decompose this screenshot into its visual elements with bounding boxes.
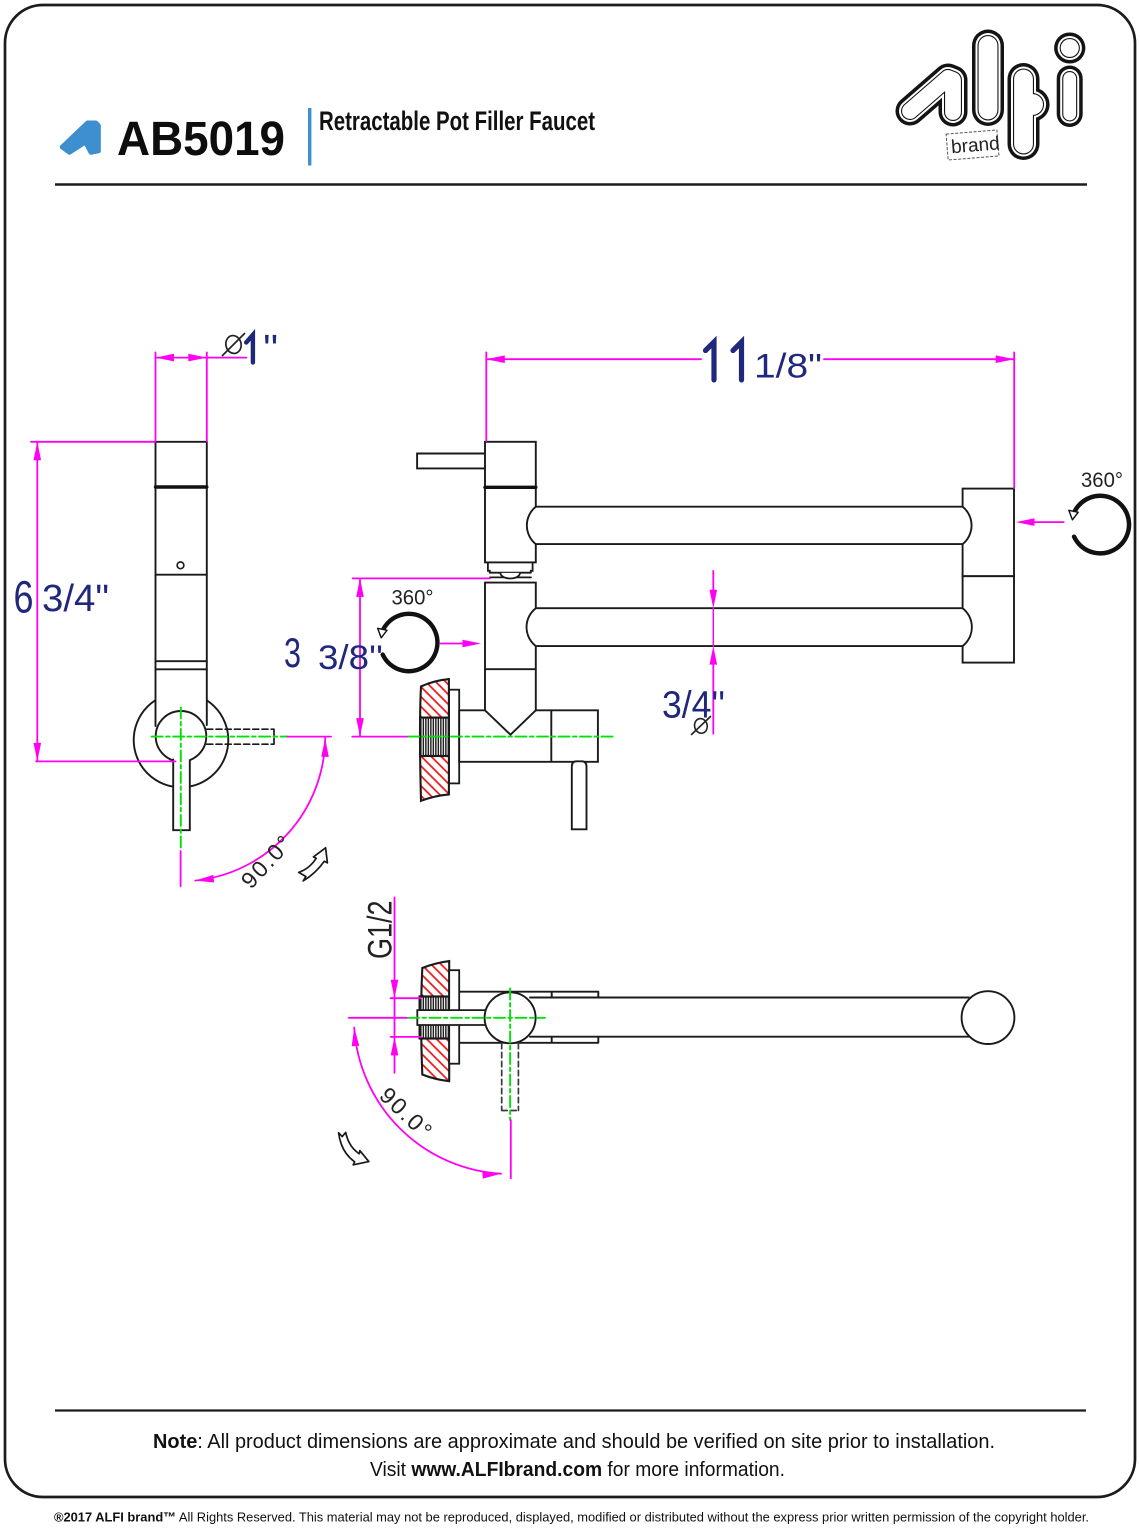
svg-text:6: 6 (14, 571, 34, 622)
escutcheon top view (449, 970, 459, 1063)
svg-text:brand: brand (950, 133, 1000, 158)
right swivel block upper (963, 489, 1014, 577)
svg-text:Retractable Pot Filler Faucet: Retractable Pot Filler Faucet (319, 106, 595, 136)
joint housing bar (459, 992, 598, 1043)
svg-text:3: 3 (284, 629, 301, 676)
set screw hole (177, 562, 184, 569)
lever handle (side) (173, 760, 190, 831)
arc extension tick (180, 851, 182, 886)
nozzle V (485, 710, 536, 734)
centerline horizontal (152, 736, 288, 738)
dim 3 3/8 extension (353, 577, 490, 579)
faucet body (side) (156, 442, 207, 732)
body seam thick (156, 485, 207, 488)
dim 11 1/8 extensions (485, 352, 487, 441)
dim 1 inch text (246, 335, 253, 363)
svg-text:360°: 360° (1081, 469, 1123, 492)
arm top view (530, 998, 970, 1037)
360 right arrow (1031, 521, 1064, 523)
body double seam (156, 660, 207, 662)
dim 11 1/8 text (706, 342, 742, 380)
upper arm capsule (527, 507, 972, 544)
brand mark blue icon (62, 123, 99, 153)
360 left arrow (441, 643, 467, 645)
rotation curl arrow (299, 848, 328, 881)
svg-text:G1/2: G1/2 (360, 900, 399, 959)
handle lever (front) (417, 454, 488, 469)
valve body (459, 710, 598, 762)
svg-text:1/8": 1/8" (754, 348, 822, 386)
mounting nipple threads (420, 718, 449, 756)
360 rotation left: circle (381, 614, 437, 671)
header rule (55, 183, 1087, 185)
lower faucet body (485, 583, 536, 711)
dim 6 3/4 extension bottom (36, 760, 176, 762)
centerline magenta extension left (349, 1017, 407, 1019)
spout stub (hidden) (207, 729, 274, 744)
dim 6 3/4 extension top (31, 441, 155, 443)
dim 3/4 line upper (712, 571, 714, 596)
alfi logo letters: silhouettes (910, 46, 1070, 145)
supply shank (417, 1010, 485, 1025)
right swivel block lower (963, 576, 1014, 662)
dim dia1 line (156, 357, 207, 359)
rotation curl arrow top view (339, 1132, 369, 1164)
dim dia1 extension lines (155, 352, 157, 441)
centerline horizontal top view (408, 1017, 545, 1019)
ALFI logo (910, 46, 1070, 145)
upper faucet body (485, 442, 536, 563)
wall section top view (hatched) (421, 961, 449, 1081)
arc extension below (510, 1120, 512, 1178)
dim 3 3/8 connector (352, 736, 407, 738)
svg-text:®2017 ALFI brand™ All Rights R: ®2017 ALFI brand™ All Rights Reserved. T… (54, 1510, 1089, 1525)
nipple threads top view (420, 997, 450, 1039)
joint inner circle (156, 711, 207, 762)
aerator collar (488, 562, 533, 572)
blue divider bar (308, 108, 311, 166)
lower body seam (485, 668, 536, 670)
svg-text:3/8'': 3/8'' (318, 639, 383, 677)
360 rotation right: circle (1073, 496, 1129, 554)
dim 3 3/8 line (359, 578, 361, 736)
svg-text:3/4": 3/4" (42, 578, 109, 620)
upper body seam thick (485, 486, 536, 489)
centerline vertical (180, 707, 182, 850)
body seam (156, 574, 207, 576)
arm end circle (962, 991, 1015, 1044)
G1/2 dim line (394, 897, 396, 1073)
lower arm capsule (527, 608, 972, 646)
90 degree arc top view (354, 1028, 501, 1174)
hidden handle (dashed) (502, 1043, 519, 1110)
svg-text:Visit www.ALFIbrand.com for mo: Visit www.ALFIbrand.com for more informa… (370, 1459, 785, 1481)
wall section (hatched) (420, 679, 449, 801)
svg-text:AB5019: AB5019 (117, 113, 285, 166)
centerline magenta extension (287, 736, 331, 738)
joint outer circle (134, 693, 229, 788)
dia symbol (223, 334, 245, 356)
svg-text:'': '' (263, 328, 278, 372)
90 degree arc (195, 738, 325, 880)
svg-text:3/4'': 3/4'' (662, 684, 725, 726)
svg-text:360°: 360° (392, 587, 434, 610)
centerline vertical top view (509, 989, 511, 1121)
aerator dome (500, 573, 520, 579)
dim 3/4 line lower (712, 660, 714, 734)
swivel joint circle (485, 992, 536, 1043)
centerline (408, 736, 614, 738)
alfi brand box (946, 130, 1001, 160)
escutcheon plate (449, 690, 459, 784)
footer rule (55, 1409, 1086, 1411)
dim 11 1/8 line (486, 358, 701, 360)
valve right block (551, 710, 598, 762)
outlet pipe (572, 761, 587, 829)
dim 6 3/4 line (36, 442, 38, 762)
svg-text:Note: All product dimensions a: Note: All product dimensions are approxi… (153, 1431, 995, 1453)
dia symbol small (692, 717, 711, 735)
